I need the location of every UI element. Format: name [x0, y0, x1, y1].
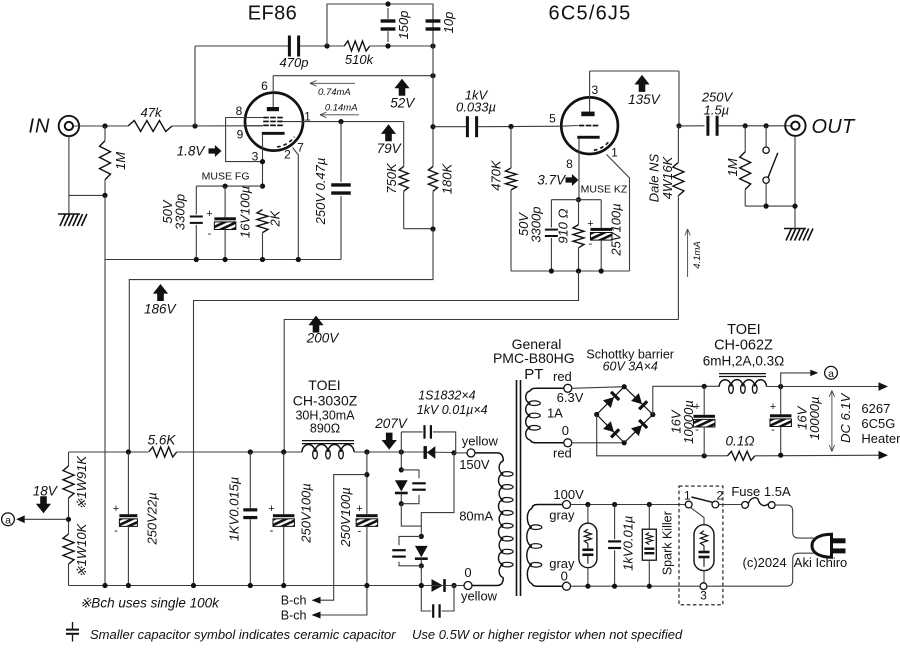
svg-text:1S1832×4: 1S1832×4 — [418, 389, 475, 403]
terminal 100V — [563, 501, 571, 509]
svg-text:6267: 6267 — [861, 401, 890, 416]
svg-text:250V 0.47µ: 250V 0.47µ — [313, 158, 328, 226]
wire 470p to 510k — [300, 45, 345, 47]
svg-text:79V: 79V — [377, 141, 403, 156]
svg-text:B-ch: B-ch — [281, 608, 307, 622]
svg-text:10000µ: 10000µ — [681, 400, 696, 444]
svg-text:0.14mA: 0.14mA — [325, 103, 358, 114]
svg-text:1: 1 — [611, 146, 618, 160]
svg-text:16V100µ: 16V100µ — [238, 186, 253, 238]
resistor 0.1ohm — [728, 451, 755, 460]
wire 150V to D3 — [421, 453, 454, 526]
diode D4 on rail — [432, 579, 444, 592]
svg-text:0.1Ω: 0.1Ω — [725, 434, 754, 449]
svg-text:3.7V: 3.7V — [537, 173, 567, 188]
svg-text:470p: 470p — [280, 55, 309, 70]
svg-text:1.5µ: 1.5µ — [704, 103, 730, 118]
diode D1 on 150V line — [421, 451, 455, 454]
bridge diode bottom-right — [631, 420, 647, 436]
wire fuse to plug — [775, 505, 813, 538]
V1 cathode bar — [262, 132, 285, 135]
svg-text:Use 0.5W or higher registor wh: Use 0.5W or higher registor when not spe… — [412, 627, 683, 642]
svg-text:135V: 135V — [628, 92, 662, 107]
capacitor 25V100u — [600, 200, 602, 228]
resistor 5.6K — [149, 447, 177, 457]
svg-text:250V100µ: 250V100µ — [338, 487, 353, 548]
fuse F1 — [719, 504, 742, 506]
svg-text:6.3V: 6.3V — [557, 390, 584, 405]
snubber RC capsule 1 — [587, 505, 589, 524]
svg-text:25V100µ: 25V100µ — [609, 203, 624, 256]
svg-text:890Ω: 890Ω — [310, 422, 340, 436]
svg-text:10p: 10p — [441, 12, 456, 34]
capacitor bypass D2 — [401, 470, 419, 478]
svg-text:1M: 1M — [113, 152, 128, 170]
svg-text:PMC-B80HG: PMC-B80HG — [493, 350, 575, 366]
wire V2 pin1 drop — [607, 155, 630, 272]
AC plug — [812, 534, 832, 557]
ground symbol input — [58, 213, 80, 215]
svg-text:250V22µ: 250V22µ — [145, 492, 160, 545]
terminal red bottom — [564, 439, 572, 447]
svg-text:-: - — [114, 525, 118, 537]
resistor 1W91K — [68, 452, 70, 466]
wire grid node up to 470p — [194, 46, 196, 126]
diode D3 vertical — [415, 546, 428, 557]
wire Bch tap lower — [313, 586, 367, 616]
wire 200V line to choke — [177, 451, 302, 453]
svg-text:TOEI: TOEI — [727, 322, 761, 338]
svg-text:EF86: EF86 — [248, 3, 297, 25]
svg-text:200V: 200V — [306, 331, 341, 346]
capacitor 3300p V1 — [195, 186, 197, 214]
svg-text:gray: gray — [549, 508, 575, 523]
svg-text:TOEI: TOEI — [308, 377, 340, 393]
wire primary bottom — [571, 585, 701, 587]
capacitor 250V100u second — [366, 452, 368, 514]
svg-text:0: 0 — [562, 423, 569, 438]
svg-text:3: 3 — [591, 83, 598, 97]
svg-text:186V: 186V — [144, 301, 178, 316]
svg-text:6: 6 — [261, 79, 268, 93]
wire jack ground — [68, 136, 70, 195]
svg-text:0: 0 — [464, 565, 471, 580]
svg-text:Heater: Heater — [861, 431, 900, 446]
wire B+ 186V line — [69, 451, 149, 453]
svg-text:1.8V: 1.8V — [177, 144, 207, 159]
svg-text:Smaller capacitor symbol indic: Smaller capacitor symbol indicates ceram… — [90, 627, 396, 642]
ground rail main — [69, 585, 465, 587]
V1 suppressor dashed arc — [277, 137, 294, 147]
arrow 1.8V — [209, 145, 222, 157]
switch blade mains — [692, 497, 713, 502]
svg-text:-: - — [358, 526, 362, 538]
svg-text:2: 2 — [717, 489, 724, 503]
svg-text:207V: 207V — [374, 416, 409, 431]
wire V2 cathode ground link — [194, 271, 579, 586]
svg-text:30H,30mA: 30H,30mA — [295, 409, 355, 423]
svg-text:Spark Killer: Spark Killer — [661, 511, 675, 575]
arrow 200V — [308, 316, 323, 333]
svg-text:470K: 470K — [489, 159, 504, 191]
bridge diamond — [597, 387, 653, 443]
svg-text:1KV0.015µ: 1KV0.015µ — [226, 477, 241, 542]
V2 dashed arc — [594, 140, 610, 150]
wire KZ top rail — [551, 199, 601, 201]
terminal 0 yellow — [464, 582, 472, 590]
resistor 1W10K — [63, 534, 74, 564]
wire 186V feed — [129, 229, 433, 452]
snubber box 2 — [648, 505, 650, 530]
resistor 910ohm — [578, 200, 580, 225]
wire 100V line — [571, 504, 686, 506]
capacitor 0.47u — [340, 122, 342, 182]
arrow 18V down — [36, 496, 51, 513]
bridge diode bottom-left — [603, 421, 619, 437]
svg-text:B-ch: B-ch — [281, 594, 307, 608]
switch contact 2 — [712, 501, 719, 508]
V1 grid leads in envelope — [245, 117, 263, 119]
capacitor 1kV0.01u mains — [614, 505, 616, 540]
capacitor 0.015u — [249, 452, 251, 508]
svg-text:+: + — [206, 208, 212, 220]
svg-text:3300p: 3300p — [529, 207, 544, 243]
svg-text:+: + — [770, 401, 776, 413]
PT heater winding 6.3V — [531, 388, 564, 391]
svg-text:※1W10K: ※1W10K — [74, 522, 89, 577]
svg-text:a: a — [828, 368, 834, 380]
arrow 3.7V — [566, 174, 579, 186]
svg-text:4.1mA: 4.1mA — [692, 241, 703, 268]
capacitor 250V100u first — [283, 452, 285, 514]
wire doubler mid — [401, 504, 421, 537]
PT primary winding 100V — [532, 505, 563, 509]
V2 anode bar — [581, 112, 594, 117]
arrow 186V — [153, 284, 168, 301]
svg-text:※Bch uses single 100k: ※Bch uses single 100k — [80, 596, 220, 611]
choke CH-062Z — [719, 373, 766, 375]
V2 grid lead — [562, 125, 579, 128]
tube V2 6C5 envelope — [561, 97, 618, 154]
capacitor 16V100u — [224, 186, 226, 217]
capacitor bypass D4 — [421, 586, 431, 612]
svg-text:(c)2024 Aki Ichiro: (c)2024 Aki Ichiro — [743, 555, 848, 570]
dashed box spark killer — [679, 486, 723, 605]
wire OUT jack ground — [794, 136, 796, 228]
V2 anode lead pin3 — [589, 71, 591, 112]
resistor 470K — [510, 127, 512, 169]
V2 cathode rail — [511, 270, 630, 272]
svg-text:510k: 510k — [345, 52, 375, 67]
resistor 1M input — [104, 126, 106, 141]
capacitor 1.5u out — [706, 116, 709, 136]
svg-text:1A: 1A — [547, 406, 563, 421]
svg-text:6mH,2A,0.3Ω: 6mH,2A,0.3Ω — [703, 353, 784, 368]
wire pin2 pin7 to rail — [293, 148, 299, 260]
switch contact 1 — [685, 501, 692, 508]
svg-text:MUSE KZ: MUSE KZ — [581, 184, 628, 196]
svg-text:※1W91K: ※1W91K — [74, 455, 89, 510]
svg-text:18V: 18V — [33, 483, 59, 498]
wire 47k to grid node — [172, 125, 263, 127]
svg-text:10000µ: 10000µ — [807, 396, 822, 440]
svg-text:47k: 47k — [141, 105, 163, 120]
wire 200V feed — [284, 320, 678, 453]
svg-text:Fuse 1.5A: Fuse 1.5A — [731, 484, 791, 499]
tube V1 EF86 envelope — [245, 93, 303, 151]
svg-text:CH-3030Z: CH-3030Z — [293, 393, 358, 409]
arrow heater minus — [879, 451, 889, 460]
svg-text:80mA: 80mA — [459, 509, 493, 524]
wire 510k to anode node — [370, 45, 433, 47]
svg-text:1kV0.01µ: 1kV0.01µ — [621, 516, 636, 571]
capacitor 150p — [387, 8, 389, 19]
bridge diode top-right — [631, 393, 647, 409]
V2 cathode bar — [577, 136, 599, 139]
svg-text:-: - — [771, 424, 775, 436]
V1 anode bar — [267, 107, 279, 111]
bridge diode top-left — [603, 392, 619, 408]
svg-text:5.6K: 5.6K — [148, 433, 177, 448]
svg-text:MUSE FG: MUSE FG — [202, 170, 250, 182]
PT core — [516, 380, 518, 596]
svg-text:8: 8 — [566, 157, 573, 171]
terminal 150V yellow — [454, 452, 467, 454]
wire heater minus out — [755, 454, 884, 457]
svg-text:7: 7 — [297, 141, 304, 155]
wire bridge DC+ to choke — [653, 386, 719, 414]
wire Bch tap upper — [313, 475, 367, 601]
switch contact 3 — [700, 583, 707, 590]
capacitor 3300p V2 — [550, 200, 552, 228]
snubber capsule 3 — [691, 508, 705, 525]
choke CH-3030Z — [302, 440, 354, 442]
jack J1 IN — [59, 116, 79, 136]
diode D2 vertical — [400, 452, 402, 470]
V1 cathode lead — [262, 135, 264, 186]
svg-text:-: - — [270, 525, 274, 537]
svg-text:100V: 100V — [553, 487, 584, 502]
capacitor 10p — [432, 8, 434, 19]
out ground rail — [745, 205, 795, 207]
svg-text:6C5/6J5: 6C5/6J5 — [549, 3, 632, 25]
capacitor bypass D3 — [399, 536, 421, 545]
svg-text:yellow: yellow — [462, 434, 499, 449]
arrow DC 6.1V — [831, 391, 833, 452]
arrow 4.1mA — [687, 229, 689, 277]
jack J2 OUT — [785, 116, 805, 136]
svg-text:2K: 2K — [268, 209, 283, 227]
wire 1M down to ground rail — [104, 195, 106, 585]
note ceramic symbol — [72, 622, 74, 629]
svg-text:5: 5 — [549, 112, 556, 126]
svg-text:+: + — [356, 503, 362, 515]
svg-text:3300p: 3300p — [173, 194, 188, 230]
wire cathode net top rail — [196, 185, 262, 187]
V1 grid rows — [263, 117, 269, 119]
svg-text:1kV 0.01µ×4: 1kV 0.01µ×4 — [417, 403, 488, 417]
svg-text:60V 3A×4: 60V 3A×4 — [603, 360, 658, 374]
resistor 180K — [432, 46, 434, 166]
svg-text:PT: PT — [524, 366, 543, 383]
PT HV secondary winding — [475, 453, 503, 461]
terminal a right — [825, 366, 838, 379]
resistor 47k — [128, 121, 172, 132]
stage1 ground rail — [105, 259, 341, 261]
arrow 207V — [382, 433, 397, 450]
svg-text:6C5G: 6C5G — [861, 416, 895, 431]
svg-text:180K: 180K — [440, 162, 455, 194]
svg-text:-: - — [589, 238, 593, 250]
wire choke to heater out — [767, 386, 885, 388]
wire 0.033u to V2 grid — [478, 125, 562, 128]
switch S1 shorting — [765, 126, 767, 147]
svg-text:DC 6.1V: DC 6.1V — [838, 392, 853, 442]
wire red0 to bridge bottom — [572, 442, 624, 444]
capacitor 250V22u — [127, 452, 129, 514]
ground symbol output — [784, 228, 806, 230]
svg-text:3: 3 — [700, 589, 707, 603]
wire top rail — [327, 4, 433, 46]
resistor 4W16K — [677, 126, 679, 162]
arrow heater plus — [879, 382, 889, 391]
svg-text:150V: 150V — [459, 457, 490, 472]
svg-text:IN: IN — [29, 116, 51, 138]
svg-text:yellow: yellow — [461, 589, 498, 604]
arrow to terminal a — [24, 518, 69, 520]
wire red to bridge top — [572, 387, 624, 389]
capacitor 16V10000u second — [780, 387, 782, 415]
wire choke to rectifier — [354, 451, 421, 453]
wire D3 to rail — [420, 566, 422, 586]
capacitor 0.033u — [466, 116, 469, 137]
arrow 0.14mA — [320, 114, 359, 116]
wire branch to terminal a right — [781, 373, 812, 387]
svg-text:2: 2 — [284, 148, 291, 162]
wire pin8 to cathode — [226, 118, 263, 162]
capacitor 470p — [288, 36, 291, 57]
resistor 2K — [257, 210, 268, 233]
arrow 52V — [394, 79, 409, 96]
svg-text:0: 0 — [561, 569, 568, 584]
wire 1.5u to OUT jack — [719, 125, 792, 127]
svg-text:OUT: OUT — [811, 116, 856, 138]
svg-text:250V100µ: 250V100µ — [299, 483, 314, 544]
svg-text:8: 8 — [236, 104, 243, 118]
resistor 510k — [344, 41, 370, 51]
wire anode to 1.5u — [679, 125, 705, 127]
terminal red top — [564, 384, 572, 392]
wire bottom to plug — [707, 553, 814, 586]
svg-text:150p: 150p — [396, 11, 411, 40]
V2 cathode lead — [578, 139, 580, 200]
terminal a left — [2, 513, 15, 526]
svg-text:red: red — [553, 446, 572, 461]
wire bridge DC- out — [597, 415, 728, 456]
capacitor 16V10000u first — [703, 386, 705, 415]
arrow 0.74mA — [310, 82, 355, 84]
wire 2K to rail — [262, 233, 264, 260]
svg-text:+: + — [587, 218, 593, 230]
svg-text:1M: 1M — [725, 158, 740, 176]
arrow 79V — [381, 124, 396, 141]
svg-text:0.74mA: 0.74mA — [318, 87, 351, 98]
wire anode node to 0.033u — [433, 126, 466, 128]
terminal gray bottom — [563, 582, 571, 590]
svg-text:a: a — [5, 515, 11, 527]
arrow 135V — [634, 75, 649, 92]
V1 anode lead pin6 to top wire — [272, 76, 274, 107]
wire V1 screen line — [303, 121, 404, 123]
resistor 1M out — [744, 126, 746, 152]
svg-text:+: + — [268, 503, 274, 515]
svg-text:-: - — [208, 228, 212, 240]
svg-text:0.033µ: 0.033µ — [456, 100, 496, 115]
svg-text:CH-062Z: CH-062Z — [714, 338, 773, 354]
svg-text:750K: 750K — [384, 162, 399, 194]
svg-text:4W16K: 4W16K — [660, 155, 675, 199]
svg-text:+: + — [113, 503, 119, 515]
svg-text:1: 1 — [684, 489, 691, 503]
svg-text:9: 9 — [237, 127, 244, 141]
wire IN jack to 47k — [74, 125, 129, 127]
svg-text:910 Ω: 910 Ω — [556, 208, 571, 243]
svg-text:red: red — [553, 369, 572, 384]
resistor 750K — [403, 122, 405, 167]
capacitor bypass D1 — [400, 432, 402, 452]
svg-text:52V: 52V — [390, 96, 416, 111]
V2 grid dashes — [579, 125, 585, 127]
